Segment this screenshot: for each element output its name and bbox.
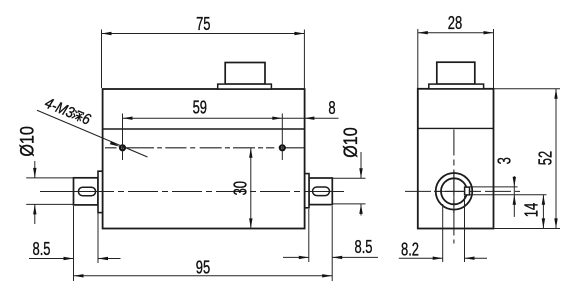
dim 8.5 right bbox=[283, 206, 378, 281]
dim 75 bbox=[102, 30, 305, 89]
holes center line bbox=[105, 147, 305, 149]
body right view bbox=[418, 89, 494, 229]
svg-text:52: 52 bbox=[536, 151, 556, 165]
extension line hole right bbox=[281, 114, 283, 161]
dim 59 and dim 8 line bbox=[123, 117, 339, 119]
dim 52 bbox=[494, 89, 561, 229]
connector box right view bbox=[437, 62, 475, 84]
dim 3 bbox=[513, 176, 515, 217]
left flange collar bbox=[98, 171, 103, 212]
svg-text:8: 8 bbox=[328, 99, 335, 119]
dim 28 bbox=[418, 29, 494, 88]
body groove line bbox=[103, 128, 305, 130]
svg-text:8.5: 8.5 bbox=[355, 238, 373, 258]
dim 30 bbox=[250, 148, 252, 229]
svg-text:95: 95 bbox=[196, 258, 210, 278]
dim 8.2 bbox=[399, 196, 487, 262]
dim 95 bbox=[74, 275, 333, 277]
right shaft slot bbox=[313, 187, 330, 196]
horizontal center line right view bbox=[405, 190, 520, 192]
svg-text:30: 30 bbox=[232, 181, 252, 195]
svg-text:8.2: 8.2 bbox=[401, 240, 419, 260]
dim O10 right bbox=[332, 152, 365, 216]
hole M3 left bbox=[120, 145, 125, 150]
groove line right view bbox=[418, 127, 494, 129]
left shaft bbox=[74, 178, 99, 205]
svg-text:3: 3 bbox=[495, 157, 515, 164]
dim 14 bbox=[542, 195, 544, 229]
svg-text:8.5: 8.5 bbox=[33, 240, 51, 260]
right flange collar bbox=[305, 174, 309, 208]
keyway extension lines bbox=[470, 187, 547, 195]
svg-text:75: 75 bbox=[196, 15, 210, 35]
svg-text:59: 59 bbox=[193, 99, 207, 119]
keyway bbox=[465, 187, 470, 195]
svg-text:Ø10: Ø10 bbox=[16, 126, 38, 157]
svg-text:14: 14 bbox=[522, 203, 542, 217]
inner circle shaft bbox=[441, 178, 467, 204]
dim O10 left bbox=[26, 161, 73, 224]
right shaft bbox=[309, 178, 332, 205]
hole M3 right bbox=[280, 145, 285, 150]
connector box left view bbox=[225, 63, 265, 85]
main axis center line bbox=[40, 191, 346, 193]
leader 4-M3 deep 6 bbox=[37, 110, 148, 157]
svg-text:28: 28 bbox=[448, 14, 462, 34]
connector flange left view bbox=[218, 84, 272, 89]
outer circle shaft flange bbox=[436, 173, 473, 210]
svg-text:4-M3: 4-M3 bbox=[42, 95, 76, 122]
svg-text:6: 6 bbox=[80, 110, 93, 129]
svg-text:Ø10: Ø10 bbox=[340, 127, 362, 158]
connector flange right view bbox=[429, 84, 484, 89]
vertical center line right view bbox=[453, 130, 455, 244]
left shaft slot bbox=[78, 187, 95, 196]
dim 8.5 left bbox=[29, 206, 121, 281]
extension line hole left bbox=[122, 114, 124, 161]
main body bbox=[103, 89, 305, 229]
